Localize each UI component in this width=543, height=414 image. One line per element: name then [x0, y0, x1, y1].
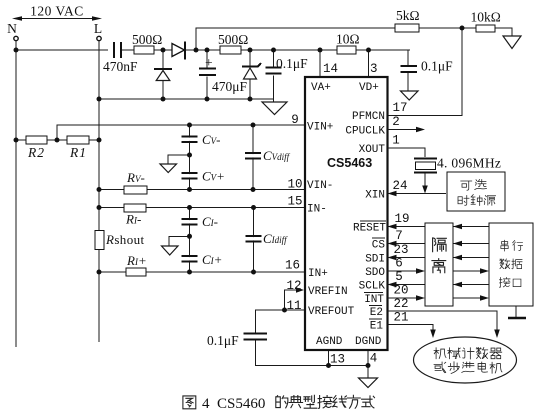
svg-text:+: + — [205, 55, 213, 70]
pin 20 INT wire — [388, 295, 426, 301]
svg-text:0.1μF: 0.1μF — [207, 333, 239, 348]
pin 1 XOUT wire — [388, 148, 426, 157]
svg-text:4: 4 — [202, 396, 210, 412]
node: VIN- row at Cv+ — [187, 187, 192, 192]
pin 7 CS wire — [388, 241, 426, 247]
node: L junction at supply bottom rail — [97, 97, 102, 102]
svg-text:CPUCLK: CPUCLK — [345, 126, 385, 138]
capacitor Cv+ — [182, 173, 198, 179]
wire: 5k to 10k to ground corner — [419, 28, 512, 36]
node: bottom rail junction at D2 — [161, 97, 166, 102]
node: AGND rail junction — [326, 363, 331, 368]
svg-text:4. 096MHz: 4. 096MHz — [437, 156, 501, 171]
arrow into VREFIN — [296, 287, 304, 293]
svg-text:CS: CS — [372, 240, 386, 252]
resistor Rshunt vertical — [95, 231, 104, 250]
node: L junction at IN- row — [97, 205, 102, 210]
svg-text:11: 11 — [286, 299, 301, 313]
svg-text:6: 6 — [395, 257, 403, 271]
wire: supply bottom rail y=99 — [99, 98, 274, 100]
node: bottom rail junction at 470uF — [205, 97, 210, 102]
node: top rail at 10k junction — [460, 26, 465, 31]
capacitor 470nF — [108, 42, 121, 58]
capacitor CI+ — [182, 256, 198, 262]
ground: CI mid — [162, 236, 190, 255]
svg-text:470nF: 470nF — [103, 59, 138, 74]
wire: IN+ row to pin16 — [99, 271, 305, 273]
node: counter ellipse — [414, 337, 517, 383]
wire: Cv column — [189, 125, 191, 190]
svg-text:SDI: SDI — [365, 254, 385, 266]
wire: upper rail y=28 to 5k — [196, 28, 395, 50]
node: R2-R1 junction — [55, 138, 60, 143]
svg-text:VA+: VA+ — [311, 82, 331, 94]
svg-text:22: 22 — [393, 297, 408, 311]
wire: iso-serial line 4 — [453, 268, 489, 274]
node: VREFOUT junction — [282, 308, 287, 313]
wire: iso-serial line 1 — [453, 224, 489, 230]
svg-text:20: 20 — [393, 284, 408, 298]
pin 24 XIN wire — [388, 191, 447, 197]
pin 2 CPUCLK wire — [388, 127, 426, 133]
node: VIN+ row at Cvdiff — [251, 123, 256, 128]
ground: Cv mid — [160, 155, 190, 173]
wire: R2 R1 row y=140 — [16, 139, 99, 141]
diode D2 shunt — [154, 69, 172, 81]
svg-text:E1: E1 — [370, 321, 384, 333]
capacitor C6 0.1uF vref — [244, 334, 268, 340]
arrow: 120VAC double arrow — [12, 16, 102, 20]
crystal Y1 4.096MHz — [414, 159, 437, 194]
ground: serial box — [508, 306, 526, 318]
node: IN+ row at CIdiff — [251, 270, 256, 275]
node: L junction at VIN- row — [97, 187, 102, 192]
svg-text:R1: R1 — [69, 145, 87, 160]
svg-text:15: 15 — [287, 195, 302, 209]
resistor R1- — [124, 204, 146, 212]
wire: IN- row to pin15 — [99, 207, 305, 209]
caption 图4 CS5460 的典型接线方式 — [183, 395, 375, 409]
node: rail junction at top-rail branch — [194, 48, 199, 53]
wire: top rail y=50 — [16, 49, 410, 51]
node: rail junction at D3 — [248, 48, 253, 53]
ground: DGND — [359, 378, 378, 388]
wire: 0.1uF C4 branch — [273, 50, 275, 102]
svg-text:INT: INT — [364, 294, 384, 306]
pin 5 SCLK wire — [388, 282, 426, 288]
node: VIN- row at Cvdiff — [251, 187, 256, 192]
svg-text:21: 21 — [393, 311, 408, 325]
node: rail junction at C4 — [271, 48, 276, 53]
label clock source box text 可选/时钟源 — [458, 180, 496, 206]
ground: 10k — [503, 36, 521, 49]
svg-text:10: 10 — [287, 178, 302, 192]
svg-text:500Ω: 500Ω — [132, 32, 162, 47]
svg-text:IN-: IN- — [307, 204, 327, 216]
wire: L vertical — [98, 41, 100, 342]
svg-text:R2: R2 — [27, 145, 45, 160]
wire: VIN+ net elbow to pin9 — [57, 125, 305, 140]
capacitor Cv- — [182, 137, 198, 143]
svg-text:500Ω: 500Ω — [218, 32, 248, 47]
svg-text:Rshout: Rshout — [105, 232, 145, 247]
node: L junction at IN+ row — [97, 270, 102, 275]
svg-text:16: 16 — [285, 259, 300, 273]
wire: pin13 stub — [328, 350, 330, 366]
wire: iso-serial line 6 — [453, 295, 489, 301]
svg-text:2: 2 — [392, 115, 400, 129]
wire: iso-serial line 2 — [453, 241, 489, 247]
wire: VD+ pin3 stub — [368, 50, 370, 77]
svg-text:RI-: RI- — [125, 212, 141, 227]
svg-text:5: 5 — [395, 270, 403, 284]
svg-text:RESET: RESET — [353, 223, 386, 235]
svg-text:L: L — [94, 21, 102, 36]
svg-text:VIN+: VIN+ — [307, 122, 333, 134]
pin 22 E2 wire — [388, 311, 500, 338]
resistor R1 — [67, 136, 89, 144]
node: N junction at R2 row — [14, 138, 19, 143]
capacitor Cvdiff — [245, 153, 261, 159]
resistor R1+ — [126, 268, 146, 276]
terminal L — [97, 36, 101, 40]
node: bottom rail junction at D3 — [248, 97, 253, 102]
resistor 10ohm — [337, 46, 356, 54]
node: L junction at R1 row — [97, 138, 102, 143]
svg-text:0.1μF: 0.1μF — [276, 56, 308, 71]
node: VIN+ row at Cv- — [187, 123, 192, 128]
svg-text:SDO: SDO — [365, 267, 385, 279]
node: IN- row at CI- — [187, 205, 192, 210]
capacitor C5 0.1uF — [401, 66, 418, 72]
svg-text:IN+: IN+ — [308, 268, 328, 280]
svg-text:N: N — [7, 21, 17, 36]
wire: pin4 stub to ground — [367, 350, 369, 378]
pin 23 SDI wire — [388, 255, 426, 261]
svg-text:DGND: DGND — [355, 336, 382, 348]
wire: VREFIN elbow — [285, 290, 301, 310]
node: CI mid junction — [187, 234, 192, 239]
label serial box text 串行/数据/接口 — [499, 240, 522, 287]
svg-text:17: 17 — [392, 101, 407, 115]
resistor 500ohm #1 — [134, 46, 154, 54]
op-amp U1 CS5463 body — [305, 77, 388, 350]
svg-text:19: 19 — [394, 212, 409, 226]
resistor 5k — [395, 24, 419, 32]
pin 19 RESET wire — [388, 224, 426, 230]
wire: VA+ pin14 stub — [319, 50, 321, 77]
wire: 470uF branch — [206, 50, 208, 99]
svg-text:10kΩ: 10kΩ — [471, 10, 501, 25]
svg-text:23: 23 — [393, 243, 408, 257]
svg-text:1: 1 — [392, 134, 400, 148]
wire: VREFOUT net — [256, 310, 306, 333]
svg-text:470μF: 470μF — [212, 79, 247, 94]
node: isolation box — [425, 223, 453, 306]
svg-text:CI-: CI- — [202, 214, 218, 229]
node: rail junction at D2 — [161, 48, 166, 53]
resistor 500ohm #2 — [220, 46, 241, 54]
wire: iso-serial line 3 — [453, 255, 489, 261]
label isolation box text 隔/离 — [432, 238, 446, 273]
node: rail junction at pin14 — [318, 48, 323, 53]
label counter ellipse text 机械计数器/或步进电机 — [434, 348, 502, 374]
svg-text:CS5463: CS5463 — [327, 156, 372, 170]
wire: 0.1uF C5 branch top right — [407, 50, 409, 66]
svg-text:4: 4 — [370, 352, 378, 366]
pin 21 E1 wire — [388, 325, 436, 339]
capacitor CI- — [182, 219, 198, 225]
svg-text:VREFIN: VREFIN — [308, 286, 348, 298]
wire: zener D3 branch — [249, 50, 251, 99]
node: Cv mid junction — [187, 153, 192, 158]
svg-text:9: 9 — [291, 113, 299, 127]
ground: C5 — [401, 91, 419, 100]
svg-text:10Ω: 10Ω — [336, 32, 360, 47]
diode D1 series — [172, 42, 185, 60]
node: rail junction at 470uF — [205, 48, 210, 53]
node: clock source box — [447, 172, 505, 211]
node: serial interface box — [489, 223, 533, 306]
svg-text:VIN-: VIN- — [307, 180, 333, 192]
svg-text:120 VAC: 120 VAC — [30, 4, 84, 19]
wire: iso-serial line 5 — [453, 282, 489, 288]
svg-text:XOUT: XOUT — [359, 144, 386, 156]
node: DGND rail junction — [366, 363, 371, 368]
terminal N — [14, 36, 18, 40]
capacitor C4 0.1uF — [266, 67, 282, 76]
node: rail junction at pin3 — [366, 48, 371, 53]
svg-text:13: 13 — [330, 353, 345, 367]
wire: Cvdiff column — [252, 125, 254, 190]
svg-text:3: 3 — [370, 62, 378, 76]
node: N junction at rail — [14, 48, 19, 53]
svg-text:24: 24 — [392, 179, 407, 193]
capacitor 470uF electrolytic — [199, 55, 216, 77]
svg-text:VREFOUT: VREFOUT — [308, 306, 355, 318]
svg-text:0.1μF: 0.1μF — [421, 59, 453, 74]
wire: CI column — [189, 208, 191, 273]
wire: N vertical — [15, 41, 17, 347]
wire: pin17 net vertical — [388, 28, 463, 116]
svg-text:CS5460: CS5460 — [217, 396, 265, 412]
capacitor CIdiff — [246, 236, 262, 242]
svg-text:XIN: XIN — [365, 190, 385, 202]
svg-text:VD+: VD+ — [359, 82, 379, 94]
resistor R2 — [26, 136, 47, 144]
svg-text:5kΩ: 5kΩ — [396, 8, 420, 23]
wire: 0.1uF C6 lower stub — [256, 339, 369, 366]
wire: CIdiff column — [253, 208, 255, 273]
svg-text:7: 7 — [395, 229, 403, 243]
wire: zener D2 branch — [162, 50, 164, 99]
wire: VIN- row to pin10 — [99, 189, 305, 191]
resistor 10k — [476, 25, 495, 32]
svg-text:AGND: AGND — [316, 336, 343, 348]
svg-text:PFMCN: PFMCN — [352, 111, 385, 123]
resistor Rv- — [124, 186, 147, 194]
node: IN- row at CIdiff — [251, 205, 256, 210]
svg-text:SCLK: SCLK — [359, 281, 386, 293]
node: IN+ row at CI+ — [187, 270, 192, 275]
svg-text:E2: E2 — [370, 307, 383, 319]
pin 6 SDO wire — [388, 268, 426, 274]
zener D3 — [242, 63, 261, 79]
svg-text:14: 14 — [323, 62, 338, 76]
ground: supply rail — [262, 102, 287, 115]
